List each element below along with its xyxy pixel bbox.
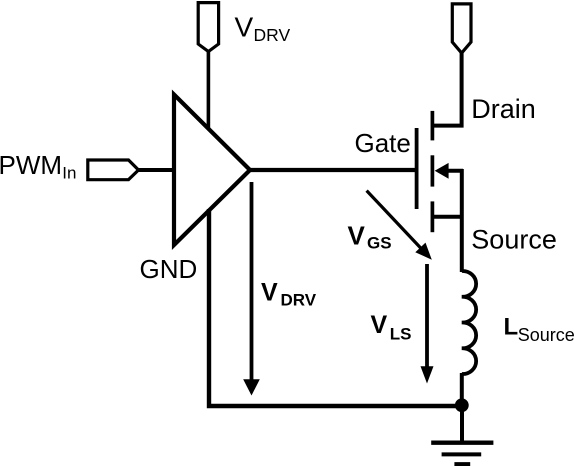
wire ground stem [460, 404, 464, 441]
svg-text:Gate: Gate [355, 128, 411, 158]
transistor Q1 channel bottom segment [431, 201, 435, 232]
wire input lead [137, 168, 176, 172]
wire source net [460, 169, 464, 272]
transistor Q1 channel middle segment [431, 155, 435, 186]
port P2 Drain [452, 4, 471, 53]
svg-text:In: In [62, 163, 76, 182]
node junction dot [455, 398, 469, 412]
port P3 PWM_In [88, 160, 139, 180]
svg-text:LS: LS [390, 325, 412, 344]
wire inductor to node [460, 373, 464, 408]
transistor Q1 body arrow [435, 163, 463, 179]
arrow V_GS measurement [367, 191, 432, 260]
arrow V_DRV measurement [243, 182, 260, 396]
svg-text:DRV: DRV [254, 25, 291, 45]
label V_DRV supply [235, 12, 291, 46]
arrow V_LS measurement [421, 264, 434, 384]
svg-text:L: L [504, 314, 519, 341]
svg-text:V: V [261, 279, 278, 307]
svg-text:GS: GS [367, 234, 392, 253]
port P1 V_DRV supply [198, 3, 218, 52]
svg-text:V: V [371, 311, 388, 339]
svg-text:V: V [235, 12, 254, 43]
label V_DRV measurement [261, 279, 317, 310]
svg-text:PWM: PWM [0, 150, 62, 180]
label L_Source [504, 314, 574, 345]
label V_GS [348, 220, 392, 252]
transistor Q1 channel top segment [431, 111, 435, 140]
op-amp U1 driver triangle [174, 95, 250, 246]
wire gate net [249, 168, 417, 172]
transistor Q1 source lead [432, 215, 462, 219]
inductor L1 [462, 271, 476, 374]
label V_LS [371, 311, 412, 343]
svg-text:Drain: Drain [471, 94, 536, 124]
wire GND return [209, 209, 463, 406]
transistor Q1 gate bar [415, 128, 419, 209]
svg-text:Source: Source [518, 325, 574, 345]
svg-text:DRV: DRV [281, 291, 317, 310]
wire V_DRV port to driver [207, 51, 211, 130]
svg-text:GND: GND [140, 254, 198, 284]
ground symbol [431, 443, 493, 465]
svg-text:V: V [348, 220, 366, 250]
svg-text:Source: Source [471, 225, 557, 255]
label PWM_In [0, 150, 76, 182]
wire drain lead [432, 52, 461, 126]
